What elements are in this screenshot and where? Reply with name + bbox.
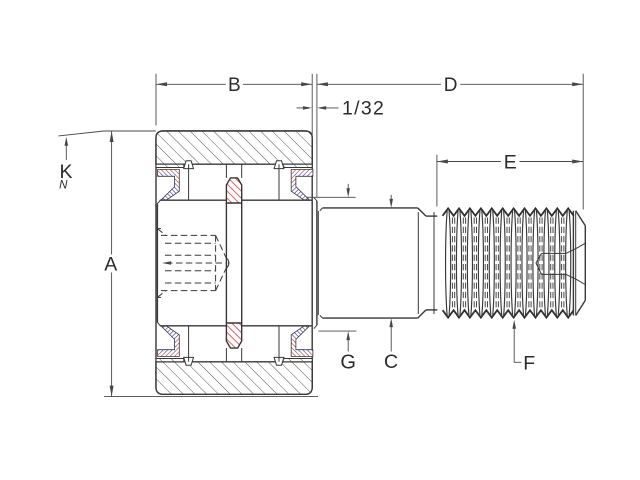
thread runout line [433,212,435,314]
svg-text:G: G [340,352,356,374]
stud shank bottom [323,317,418,319]
dimension A extension slanted to K [59,131,105,136]
dimension 1/32 left arrow [297,107,309,109]
dimension E extension left [436,155,438,207]
shank end chamfer bottom [418,310,426,318]
svg-text:F: F [523,353,535,375]
dimension B extension right / roller face [311,74,313,140]
lube hole wall left [225,164,227,178]
stud shank top [323,207,418,209]
hex socket entry chamfer [157,229,165,236]
shank end edge [417,212,419,314]
dimension B extension left [155,74,157,126]
stud head top chamfer [157,200,160,203]
dimension A line [111,131,113,255]
dimension G arrow top [347,184,349,192]
dimension D extension right [582,74,584,210]
end hex socket bottom edge [542,274,586,284]
hex socket flats [165,242,216,244]
seal top-left [158,170,180,200]
svg-text:A: A [104,253,117,275]
thread termination [572,211,574,316]
dimension C arrow top [390,195,392,203]
dimension G extension top [306,196,356,198]
thread crest flank lenses [446,210,448,316]
outer ring retaining lip bottom-left [184,357,194,365]
outer ring (roller) outline [156,131,312,394]
needle rollers left end washer [188,164,190,200]
seal bottom-right [291,326,313,356]
dimension E line [437,161,501,163]
stud end face [584,226,586,301]
outer ring retaining lip top-right [274,161,284,169]
seal groove shelf hatch bottom-right [283,359,312,362]
dimension A extension bottom [104,396,318,398]
dimension A extension top [104,130,156,132]
svg-text:D: D [444,75,458,96]
outer ring hatch bottom band [156,362,312,395]
lube plug bottom [226,323,241,348]
stud race surface top [160,199,312,201]
dimension G arrow bottom [346,331,350,340]
lube plug top [226,178,241,203]
hex socket drill cone [216,235,229,263]
shank end chamfer top [418,208,426,216]
stud relief at end plate [317,211,319,315]
hex socket hidden outline [161,234,216,236]
thread relief neck top [426,215,437,217]
seal groove shelf hatch top-left [156,164,184,167]
thread crest zigzag top [443,208,574,215]
lube hole wall right [241,164,243,178]
svg-text:E: E [504,152,517,174]
stud head bottom chamfer [157,322,160,325]
svg-text:B: B [228,75,241,96]
drill point mark at lube hole [227,258,229,267]
dimension 1/32 right arrow [317,106,326,110]
outer ring retaining lip top-left [184,161,194,169]
thread end chamfer bottom [576,301,586,316]
dimension K arrow [65,141,67,160]
dimension G extension bottom [318,330,356,332]
outer ring hatch top band [156,131,312,164]
end plate right face [316,201,318,325]
needle rollers right end washer [278,164,280,200]
end plate bottom chamfer [314,325,317,329]
dimension B line [156,83,226,85]
hex socket centerline with arrow [166,262,226,264]
end hex socket top edge [542,243,586,253]
svg-text:1/32: 1/32 [342,98,385,120]
thread end chamfer top [576,211,586,226]
svg-text:C: C [384,351,398,373]
dimension C arrow bottom [389,318,393,327]
end plate top chamfer [314,197,317,201]
dimension F leader [512,320,516,329]
socket mouth edge bottom on face [157,296,161,298]
dimension D line [317,83,441,85]
thread relief neck bottom [426,309,437,311]
stud head left face [156,204,158,323]
seal groove shelf hatch top-right [283,164,312,167]
svg-text:N: N [59,180,68,192]
thread crest zigzag bottom [443,310,574,317]
stud race surface bottom [160,325,312,327]
seal groove shelf hatch bottom-left [156,359,184,362]
dimension D extension left / end plate face [316,74,318,198]
socket mouth edge top on face [157,228,161,230]
seal top-right [291,170,313,200]
seal bottom-left [158,326,180,356]
outer ring retaining lip bottom-right [274,357,284,365]
end hex socket cone [536,253,542,274]
thread root hidden lines [451,218,453,309]
